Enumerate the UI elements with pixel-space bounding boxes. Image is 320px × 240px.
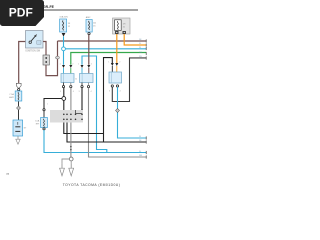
svg-text:1H: 1H xyxy=(123,24,126,26)
coil 3 cyan output to edge xyxy=(118,87,147,138)
terminal circle above fuse AM2 xyxy=(18,89,20,91)
cyan feed wire from fuse F1 down to coil 1 xyxy=(63,36,65,64)
coil 1 output terminals xyxy=(62,86,64,88)
svg-text:78: 78 xyxy=(6,172,10,176)
svg-text:EFI: EFI xyxy=(36,124,40,126)
coil 2 gray output long run to edge xyxy=(89,88,147,157)
title rule xyxy=(40,9,138,11)
wire into fuse F4 xyxy=(43,111,45,118)
ECM internal jog xyxy=(76,113,83,115)
small pin labels near coils xyxy=(47,58,122,106)
ignition coil no.1 xyxy=(61,74,74,83)
diamond connector on that wire xyxy=(17,106,21,110)
page background xyxy=(0,0,149,198)
teal staple wire to coil 2 and long drop xyxy=(82,56,107,153)
ignition coil no.3 xyxy=(109,72,122,83)
ECM output black wire (IGT route) xyxy=(64,123,104,134)
ECM pin dots xyxy=(63,114,83,121)
svg-text:15A IGN: 15A IGN xyxy=(59,16,68,19)
svg-text:1M: 1M xyxy=(139,52,142,54)
ignition coil no.2 xyxy=(80,74,94,83)
connector dots on gray xyxy=(70,146,72,148)
node circle on black xyxy=(62,97,66,101)
connector arrow (white) on left drop xyxy=(16,83,21,88)
oval connector on riser xyxy=(56,56,60,59)
ECM connector box xyxy=(50,110,83,123)
fuse F2 (top middle) xyxy=(86,20,92,33)
svg-text:AM2: AM2 xyxy=(9,96,14,99)
coil 3 connector arrows xyxy=(111,63,114,66)
connector box on loop xyxy=(43,55,49,65)
branch to lower fuse xyxy=(44,99,62,109)
coil 3 left output U-loop to edge xyxy=(112,58,146,102)
coil 2 black output to ECM xyxy=(81,88,83,111)
svg-text:IGNITION SW: IGNITION SW xyxy=(26,50,41,52)
cyan horizontal to right edge xyxy=(64,48,147,50)
PDF badge xyxy=(0,0,44,26)
fuse F4 xyxy=(41,118,48,128)
ECM output black wire 2 xyxy=(67,123,146,143)
wire fuse F3 to relay xyxy=(18,101,20,120)
svg-text:1J: 1J xyxy=(139,47,141,49)
svg-text:1M: 1M xyxy=(139,155,142,157)
wire loop bottom xyxy=(46,59,58,76)
coil 2 output terminals xyxy=(81,86,83,88)
ground arrow right xyxy=(69,163,74,175)
terminal circle above fuse F4 xyxy=(43,109,45,111)
main bus wire (dark red) xyxy=(58,40,147,42)
svg-text:7.5A: 7.5A xyxy=(9,93,14,96)
ground arrow left xyxy=(60,163,65,175)
diamond connector on cyan xyxy=(116,109,120,113)
coil 1 black output to ECM xyxy=(63,88,65,110)
orange wire right (to edge) xyxy=(124,34,146,45)
fuse AM2 (left, fuse F3) xyxy=(15,91,22,101)
riser to bus xyxy=(57,41,59,56)
green signal wire xyxy=(71,53,146,65)
svg-text:1J: 1J xyxy=(139,136,141,138)
coil 1 gray output down xyxy=(70,88,72,123)
orange wire left (to coil 3) xyxy=(116,34,118,63)
right edge ticks and labels xyxy=(145,39,147,158)
fuse block (gray box top right) xyxy=(113,18,131,34)
coil 1 connector arrows xyxy=(62,65,65,68)
node circle on cyan xyxy=(62,47,66,51)
fuse IGN (top fuse F1) xyxy=(60,19,67,32)
svg-text:TOYOTA TACOMA (EM01D0U): TOYOTA TACOMA (EM01D0U) xyxy=(63,183,121,187)
ground branch left xyxy=(62,159,69,163)
svg-text:10A: 10A xyxy=(35,120,39,123)
svg-text:PDF: PDF xyxy=(9,5,33,19)
svg-text:AM2: AM2 xyxy=(86,16,91,19)
ignition switch box xyxy=(26,31,44,49)
ground node circle xyxy=(69,157,73,161)
wire fuse F2 down to coil 2 xyxy=(88,35,90,65)
coil 3 output terminals xyxy=(111,85,113,87)
arrow connector below fuse F1 xyxy=(62,33,66,37)
ground branch right xyxy=(70,161,72,164)
cyan wire fuse F4 to bottom rail xyxy=(44,130,146,153)
terminal below fuse F4 xyxy=(43,128,45,130)
relay ground arrow xyxy=(16,136,20,144)
coil 2 connector arrows xyxy=(81,65,84,68)
wire ignition switch left drop xyxy=(19,42,26,84)
terminal circle below fuse F2 xyxy=(88,33,90,35)
wire ignition switch right loop xyxy=(43,42,46,56)
black net to coil 3 input xyxy=(104,58,147,142)
relay box (starter relay) xyxy=(13,120,23,136)
ECM gray ground wire xyxy=(70,123,72,158)
